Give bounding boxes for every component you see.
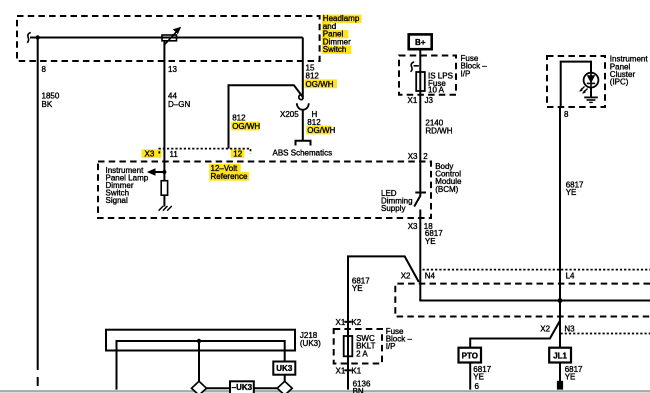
svg-text:(BCM): (BCM) xyxy=(435,185,458,194)
svg-text:Supply: Supply xyxy=(381,204,405,213)
svg-text:RD/WH: RD/WH xyxy=(425,126,452,135)
svg-text:13: 13 xyxy=(168,65,177,74)
svg-text:YE: YE xyxy=(352,284,363,293)
svg-text:6: 6 xyxy=(475,382,480,391)
svg-text:X1: X1 xyxy=(408,96,418,105)
svg-text:8: 8 xyxy=(564,110,569,119)
svg-text:(IPC): (IPC) xyxy=(610,78,629,87)
svg-text:X3: X3 xyxy=(145,150,155,159)
svg-text:K1: K1 xyxy=(351,366,361,375)
svg-text:OG/WH: OG/WH xyxy=(306,80,334,89)
svg-text:(UK3): (UK3) xyxy=(300,339,321,348)
svg-text:N3: N3 xyxy=(564,324,575,333)
svg-text:UK3: UK3 xyxy=(276,364,293,373)
svg-text:11: 11 xyxy=(170,150,179,159)
svg-text:BK: BK xyxy=(42,100,53,109)
svg-text:OG/WH: OG/WH xyxy=(307,126,335,135)
svg-text:YE: YE xyxy=(566,188,577,197)
svg-text:L4: L4 xyxy=(566,271,575,280)
svg-text:X3: X3 xyxy=(408,222,418,231)
svg-text:YE: YE xyxy=(473,373,484,382)
svg-text:PTO: PTO xyxy=(462,352,478,361)
svg-text:J3: J3 xyxy=(425,96,434,105)
svg-text:X1: X1 xyxy=(336,366,346,375)
svg-text:K2: K2 xyxy=(351,318,361,327)
svg-text:–UK3: –UK3 xyxy=(232,383,253,392)
svg-text:Signal: Signal xyxy=(106,196,128,205)
svg-text:X3: X3 xyxy=(408,152,418,161)
svg-text:OG/WH: OG/WH xyxy=(232,122,260,131)
svg-text:N4: N4 xyxy=(425,271,436,280)
svg-text:X205: X205 xyxy=(280,110,299,119)
svg-text:2 A: 2 A xyxy=(356,349,368,358)
svg-text:Switch: Switch xyxy=(323,45,347,54)
svg-text:I/P: I/P xyxy=(386,342,396,351)
svg-text:D–GN: D–GN xyxy=(168,100,190,109)
svg-text:X2: X2 xyxy=(401,271,411,280)
svg-text:12: 12 xyxy=(233,150,242,159)
svg-text:Reference: Reference xyxy=(211,172,248,181)
svg-text:10 A: 10 A xyxy=(428,86,445,95)
svg-text:JL1: JL1 xyxy=(553,352,567,361)
svg-text:B+: B+ xyxy=(415,38,426,47)
svg-text:I/P: I/P xyxy=(461,69,471,78)
svg-text:YE: YE xyxy=(425,237,436,246)
svg-text:2: 2 xyxy=(423,152,428,161)
svg-text:YE: YE xyxy=(565,373,576,382)
svg-text:X2: X2 xyxy=(540,324,550,333)
svg-text:BN: BN xyxy=(353,387,364,393)
svg-text:X1: X1 xyxy=(336,318,346,327)
svg-text:ABS Schematics: ABS Schematics xyxy=(273,149,333,158)
svg-text:8: 8 xyxy=(42,65,47,74)
